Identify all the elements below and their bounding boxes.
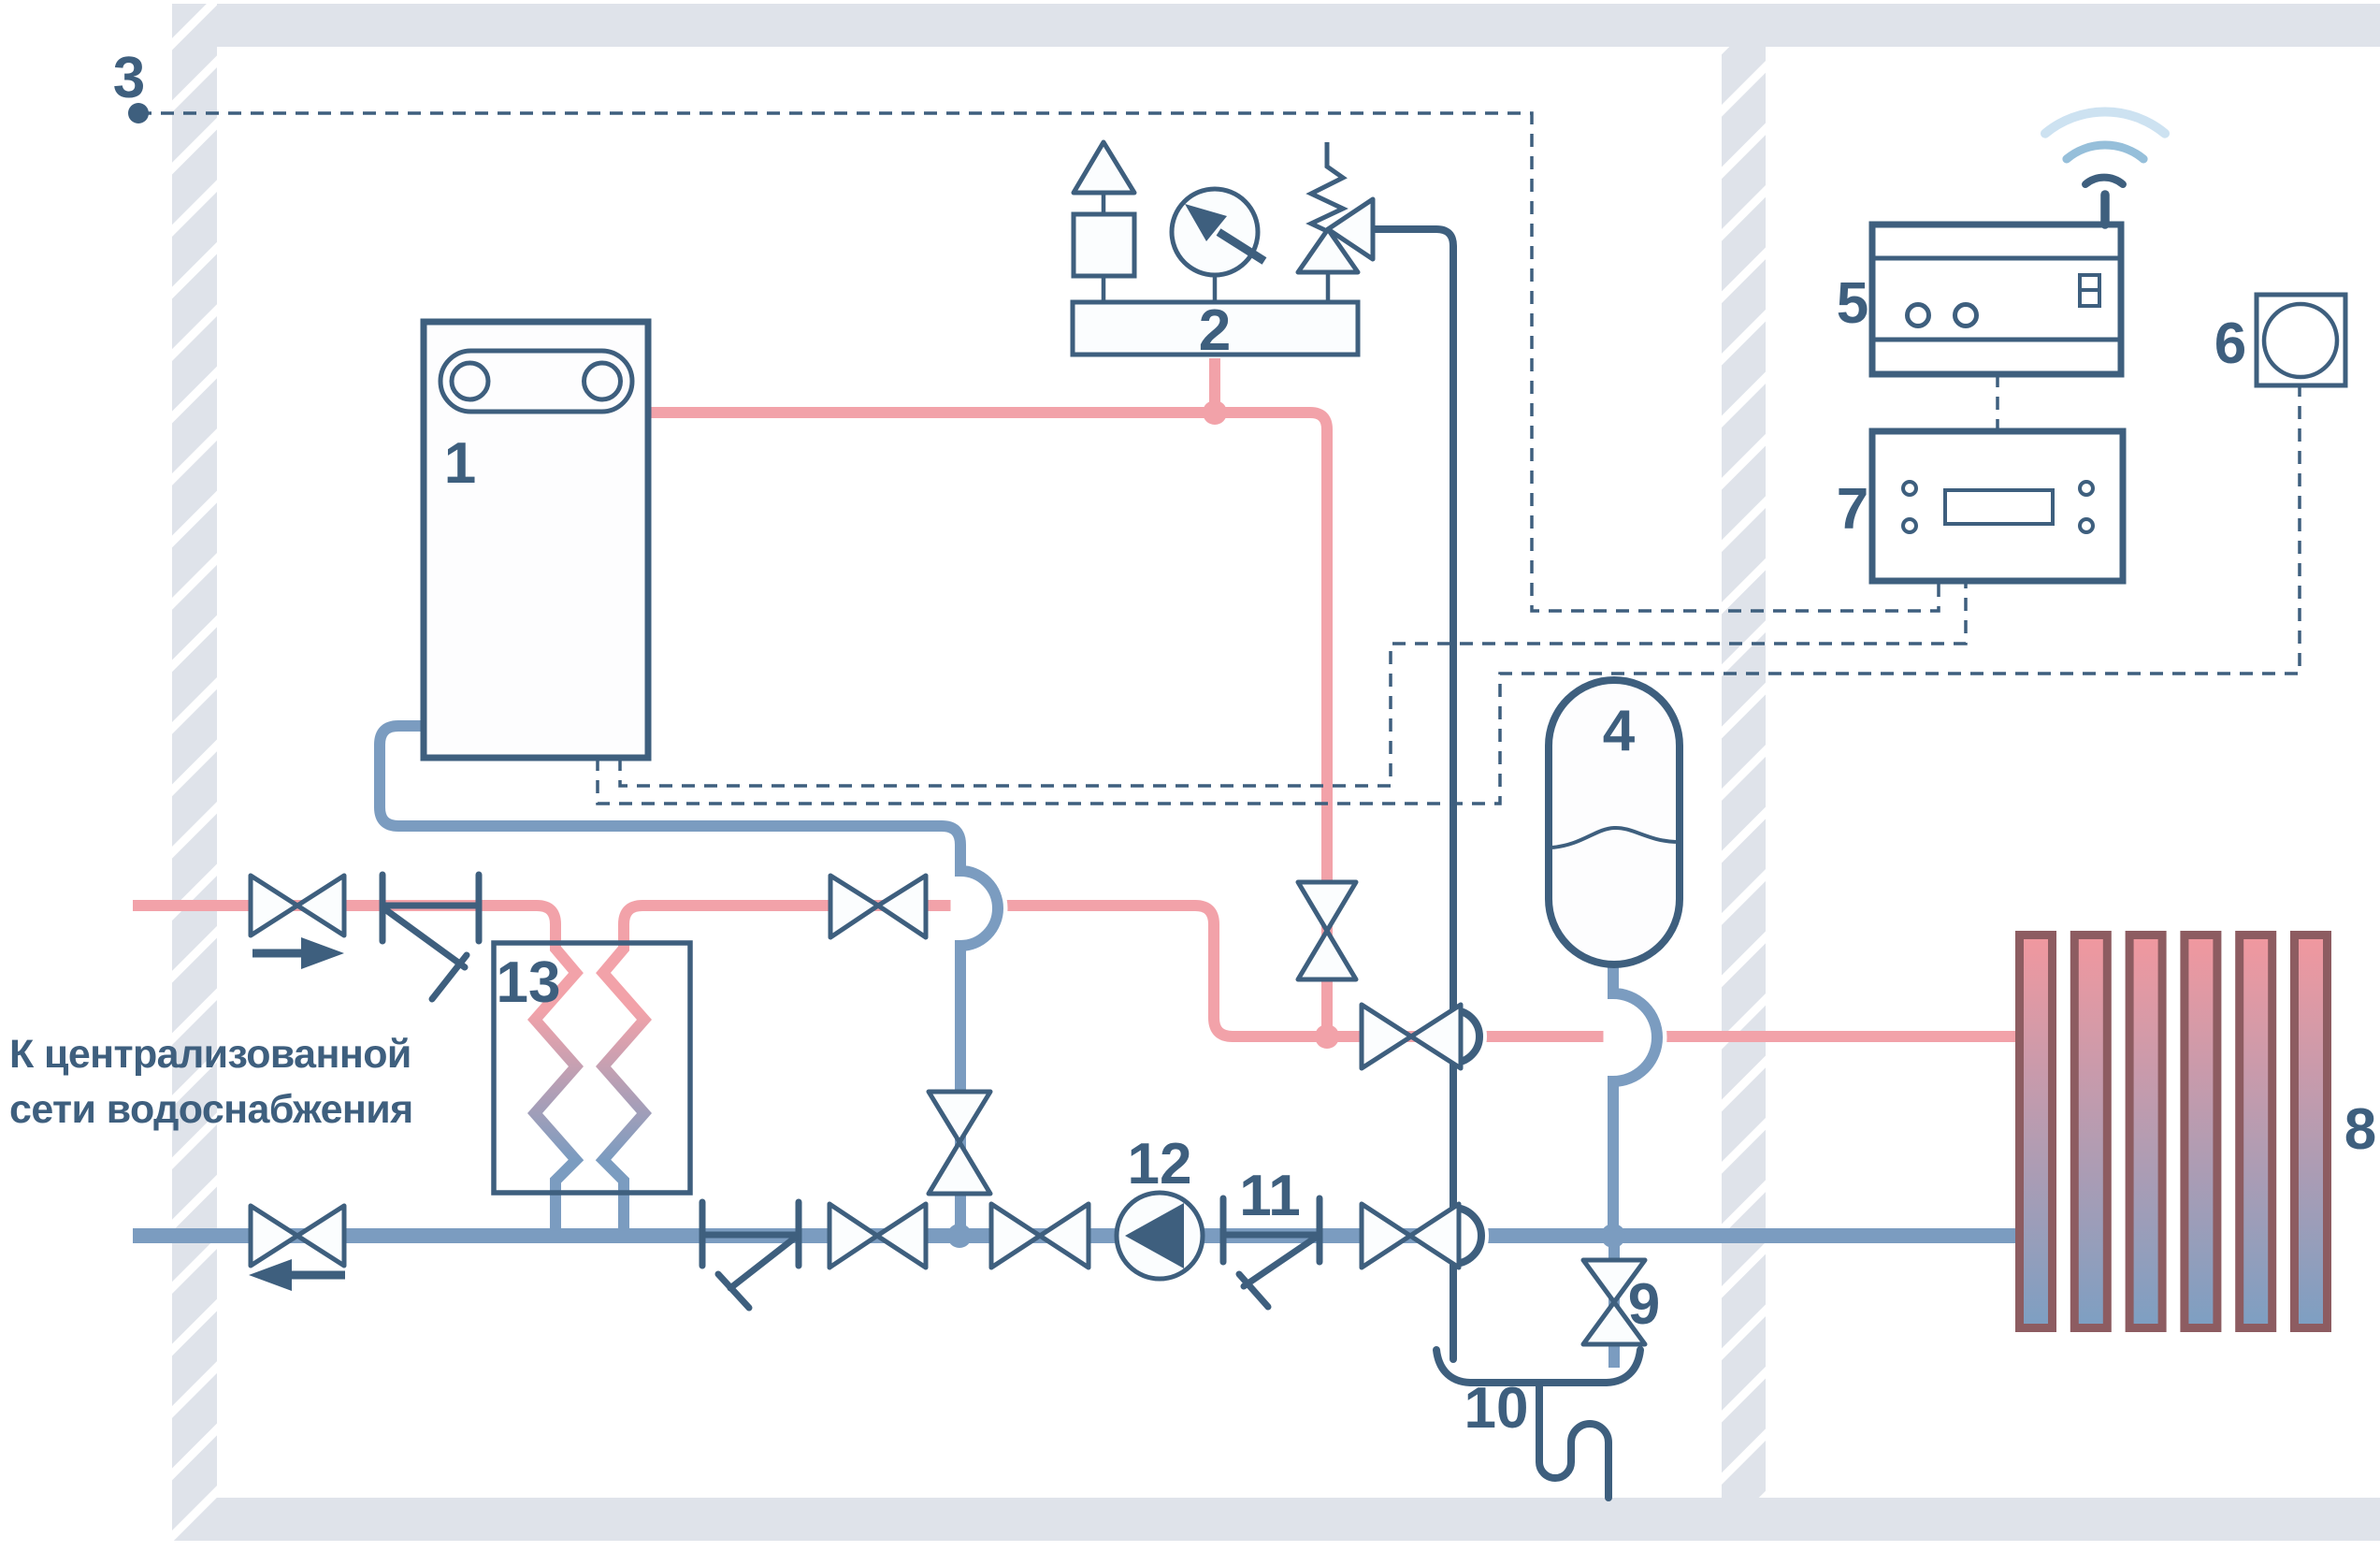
floor slab (172, 1498, 2380, 1541)
hop keepouts: discharge pipe over supply and return (1453, 1001, 1479, 1072)
boiler 1 (424, 322, 648, 758)
left wall (hatched) (172, 4, 217, 1541)
valve (vertical, boiler return) (929, 1092, 990, 1142)
valve (supply line, before radiator) (1362, 1005, 1411, 1068)
pressure gauge (1213, 275, 1218, 302)
wire: expansion vessel branch with hop (1613, 963, 1657, 1236)
svg-text:4: 4 (1603, 699, 1636, 763)
manifold 2 (1073, 302, 1358, 355)
wire: receiver 5 to programmer 7 (1996, 374, 1999, 431)
svg-text:12: 12 (1128, 1132, 1192, 1196)
svg-text:К централизованной: К централизованной (9, 1032, 411, 1077)
safety relief valve with spring (1311, 142, 1343, 231)
wire: heating supply pipe from boiler to junction (648, 413, 1327, 1036)
strainer 11 (1223, 1198, 1320, 1307)
VALVES AND FITTINGS (382, 875, 1320, 1308)
svg-text:11: 11 (1239, 1164, 1301, 1228)
node: vessel branch tee (1601, 1224, 1625, 1248)
wire: room thermostat 3 to programmer 7 (138, 113, 1939, 611)
svg-text:1: 1 (444, 431, 476, 496)
valve (return line 1) (829, 1204, 877, 1268)
arrow: DHW outflow (left) (292, 1271, 345, 1280)
heat exchanger 13 box (494, 943, 690, 1193)
hop keepout: vessel branch over supply (1613, 984, 1657, 1091)
note: water-supply network caption (9, 1032, 413, 1132)
svg-text:сети водоснабжения: сети водоснабжения (9, 1087, 413, 1132)
valve (blue DHW outlet) (251, 1206, 297, 1266)
programmer 7 (1872, 431, 2123, 581)
heat exchanger coil B (gradient) (603, 940, 644, 1237)
air vent (1102, 193, 1106, 302)
wire: boiler to room sensor 6 (598, 385, 2300, 804)
wire: safety valve discharge pipe with hops (1373, 229, 1481, 1359)
svg-text:13: 13 (497, 950, 561, 1015)
node: thermostat 3 terminal (128, 103, 149, 123)
strainer (blue line left) (702, 1202, 799, 1308)
hop keepout: boiler return over DHW supply (960, 861, 998, 956)
check valve (pink line) (382, 875, 479, 999)
svg-text:7: 7 (1837, 477, 1868, 542)
svg-text:3: 3 (113, 46, 145, 110)
middle wall (hatched) (1722, 47, 1766, 1498)
heat exchanger coil A (gradient) (535, 940, 576, 1237)
pump 12 (1117, 1193, 1203, 1279)
valve (DHW line at exchanger outlet) (830, 876, 878, 937)
expansion vessel 4 (1549, 680, 1680, 964)
wire: drain valve stub (1608, 1236, 1620, 1368)
node: supply junction (1315, 1024, 1339, 1049)
wifi arcs (2045, 112, 2165, 184)
node: boiler return tee (947, 1224, 972, 1248)
SAFETY GROUP 2 (1073, 142, 1373, 355)
FLOW ARROWS (249, 937, 345, 1291)
radiator 8 (2020, 935, 2328, 1328)
PIPES (133, 229, 2024, 1498)
ceiling slab (172, 4, 2380, 47)
svg-text:2: 2 (1199, 298, 1231, 363)
node: supply tee at safety group (1203, 400, 1227, 425)
wire: main return pipe (bottom) (133, 1228, 2024, 1243)
drain valve 9 (1583, 1260, 1645, 1302)
svg-text:6: 6 (2214, 312, 2246, 376)
svg-text:5: 5 (1837, 271, 1868, 336)
wire: safety group stub (1209, 358, 1220, 418)
drain funnel 10 (1436, 1350, 1640, 1383)
wire: boiler return pipe with hop (380, 726, 998, 1236)
valve (return line 3, before radiator) (1362, 1204, 1410, 1268)
valve (vertical, boiler supply) (1298, 882, 1356, 931)
valve (pink DHW inlet) (251, 876, 297, 935)
svg-text:9: 9 (1628, 1272, 1660, 1337)
wire: DHW/heating supply pipe to radiator (624, 906, 2024, 1036)
wireless receiver 5 (1872, 195, 2121, 374)
svg-text:10: 10 (1464, 1376, 1529, 1441)
wire: DHW supply left entry into exchanger coil A (133, 906, 555, 947)
svg-text:8: 8 (2344, 1097, 2376, 1162)
valve (return line 2) (991, 1204, 1040, 1268)
arrow: DHW inflow (right) (252, 949, 304, 958)
drain siphon trap (1539, 1383, 1608, 1498)
room sensor 6 (2257, 295, 2345, 385)
wire: boiler to programmer 7 (620, 581, 1966, 786)
DASHED CONTROL WIRING (138, 113, 2300, 804)
